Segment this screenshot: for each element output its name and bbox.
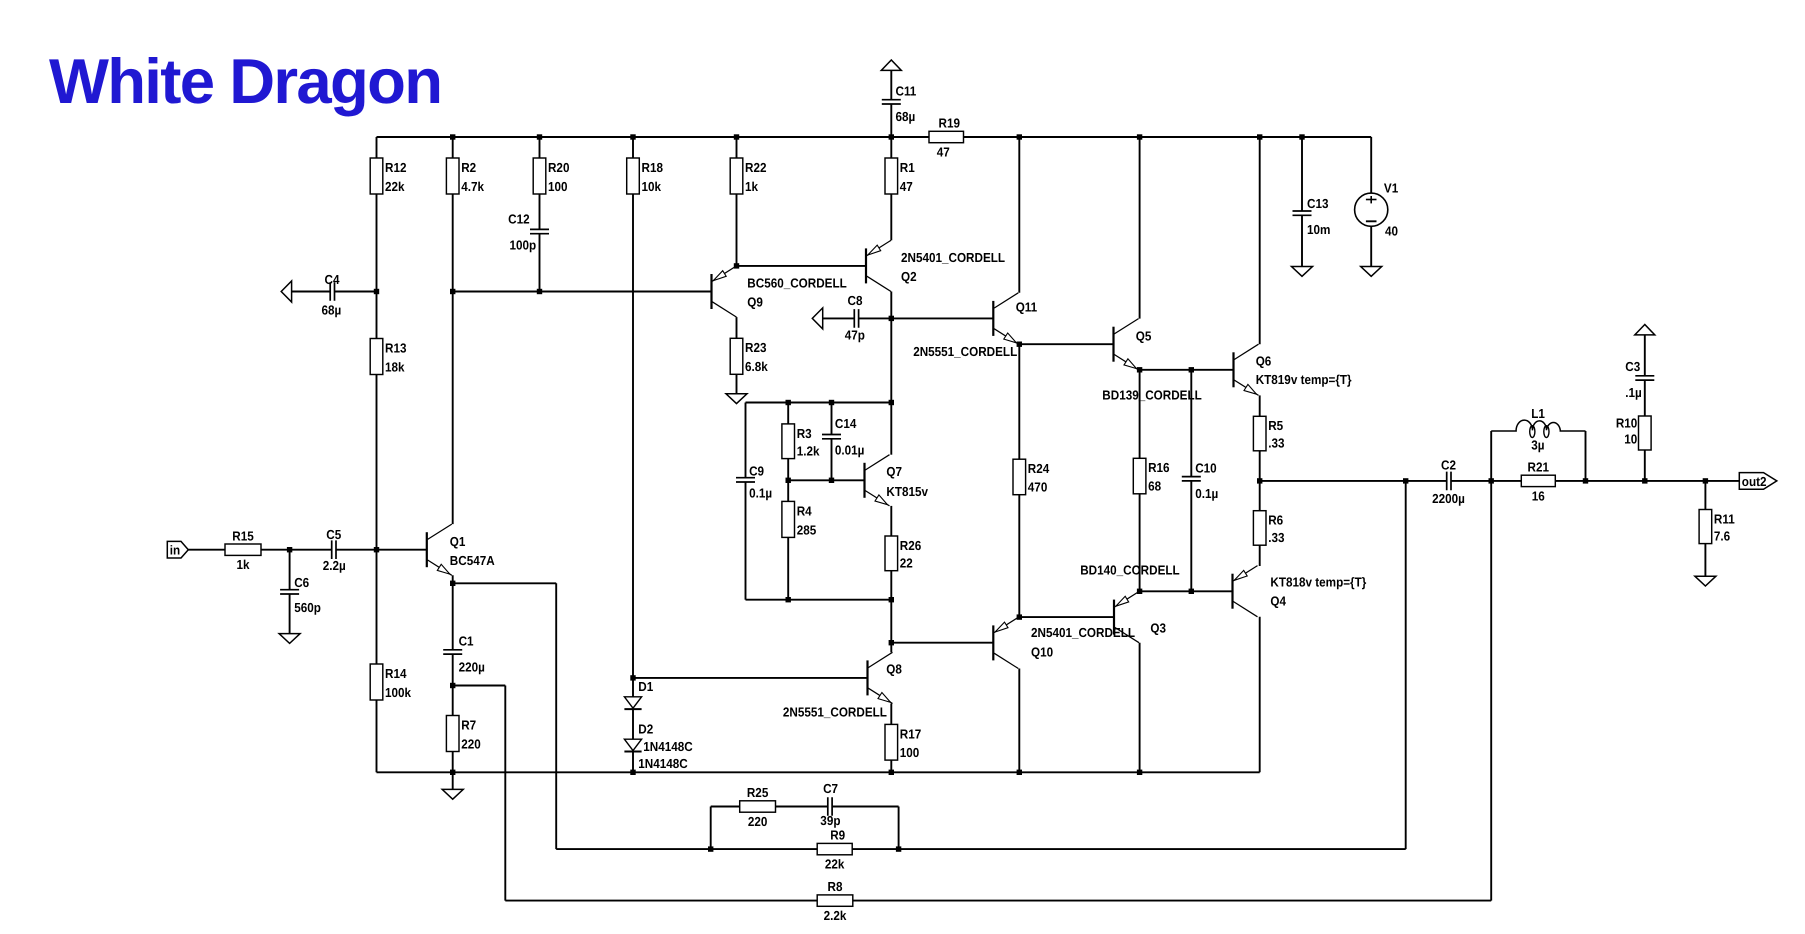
svg-text:C11: C11 (896, 84, 917, 99)
wire C8 to node (859, 317, 892, 319)
svg-text:.33: .33 (1268, 436, 1284, 451)
svg-text:10k: 10k (642, 179, 662, 194)
svg-text:D1: D1 (638, 679, 653, 694)
wire bottom rail (377, 771, 1260, 773)
capacitor C13 (1293, 196, 1331, 237)
svg-text:R4: R4 (797, 503, 813, 518)
resistor R11 (1699, 510, 1735, 544)
svg-text:C1: C1 (459, 633, 474, 648)
ground below C6 (279, 634, 300, 644)
resistor R24 (1013, 459, 1050, 495)
junction mid rail right (889, 400, 894, 405)
svg-text:68µ: 68µ (896, 109, 916, 124)
resistor R17 (885, 724, 921, 760)
ground below V1 (1361, 267, 1382, 277)
svg-text:C13: C13 (1307, 196, 1328, 211)
junction R26 bottom node (889, 597, 894, 602)
svg-text:C4: C4 (325, 272, 341, 287)
wire Q8 base wire (633, 677, 868, 679)
diode D2 (624, 739, 641, 751)
wire Q4 collector down (1259, 617, 1261, 773)
wire R12 bottom (376, 194, 378, 292)
capacitor C11 (882, 84, 917, 124)
svg-text:C12: C12 (508, 211, 529, 226)
wire C8 node to Q11 base (891, 317, 993, 319)
wire R9 lead left (711, 848, 818, 850)
svg-text:0.1µ: 0.1µ (749, 486, 772, 501)
resistor R25 (740, 785, 776, 829)
junction bot R17 (889, 770, 894, 775)
svg-text:2N5401_CORDELL: 2N5401_CORDELL (901, 250, 1005, 265)
junction R24/Q10E/Q3 base (1017, 614, 1022, 619)
svg-text:40: 40 (1385, 224, 1398, 239)
ground below bottom rail (442, 789, 463, 799)
svg-text:Q2: Q2 (901, 269, 917, 284)
wire R24 top (1018, 344, 1020, 459)
resistor R9 (817, 828, 852, 872)
svg-text:6.8k: 6.8k (745, 359, 768, 374)
wire C10 lower (1190, 481, 1192, 591)
svg-text:.33: .33 (1268, 530, 1284, 545)
junction C8 node (889, 316, 894, 321)
svg-text:R25: R25 (747, 785, 768, 800)
svg-text:BD139_CORDELL: BD139_CORDELL (1102, 388, 1202, 403)
svg-text:22k: 22k (385, 179, 405, 194)
wire D1 top wire (632, 678, 634, 697)
junction R2/Q1 node (450, 289, 455, 294)
ground below R23 (726, 394, 747, 404)
junction R16/Q3E node (1137, 589, 1142, 594)
svg-text:1.2k: 1.2k (797, 444, 820, 459)
wire R4 top wire (787, 480, 789, 501)
wire R9 row right (852, 848, 1405, 850)
svg-text:3µ: 3µ (1531, 437, 1544, 452)
svg-text:Q9: Q9 (747, 295, 763, 310)
svg-text:47: 47 (900, 179, 913, 194)
transistor Q7 (KT815v) (865, 455, 929, 506)
wire R4 bottom wire (787, 537, 789, 599)
svg-text:C10: C10 (1195, 461, 1216, 476)
wire R8 row right (853, 900, 1491, 902)
svg-text:0.01µ: 0.01µ (835, 442, 865, 457)
svg-text:C5: C5 (326, 527, 341, 542)
svg-text:BC547A: BC547A (450, 553, 495, 568)
svg-text:18k: 18k (385, 359, 405, 374)
resistor R20 (533, 158, 569, 194)
wire Q6 collector up (1259, 137, 1261, 344)
wire C1 lower (452, 654, 454, 685)
svg-text:2N5551_CORDELL: 2N5551_CORDELL (783, 705, 887, 720)
wire out row 4 (1645, 480, 1706, 482)
wire C13 bottom (1301, 215, 1303, 266)
wire rail corner to R12 (376, 137, 378, 158)
svg-text:R24: R24 (1028, 461, 1050, 476)
wire L1 left riser (1490, 431, 1492, 481)
wire Q2 collector down (890, 292, 892, 319)
wire C8 flag to cap (823, 317, 855, 319)
transistor Q8 (2N5551_CORDELL) (783, 652, 902, 719)
capacitor C3 (1625, 359, 1654, 400)
svg-text:10m: 10m (1307, 222, 1330, 237)
wire C12 bottom (539, 234, 541, 292)
wire Q1 emitter down (452, 575, 454, 650)
junction C2/R21/L1 node (1489, 478, 1494, 483)
wire R25 riser left (710, 807, 712, 850)
svg-text:R26: R26 (900, 538, 921, 553)
svg-text:V1: V1 (1384, 181, 1398, 196)
junction R9 right node (896, 846, 901, 851)
transistor Q2 (2N5401_CORDELL) (866, 240, 1005, 291)
wire mid rail top (746, 402, 892, 404)
junction R12/R13/C4 (374, 289, 379, 294)
resistor R12 (370, 158, 406, 194)
junction Q8C/Q10B node (889, 640, 894, 645)
wire R11 bottom wire (1704, 544, 1706, 577)
junction bot Q3 (1137, 770, 1142, 775)
wire Q9 E slant end (736, 265, 738, 267)
resistor R13 (370, 339, 406, 375)
junction R22/Q2 base (734, 263, 739, 268)
svg-text:7.6: 7.6 (1714, 529, 1730, 544)
resistor R16 (1133, 458, 1169, 494)
resistor R7 (446, 716, 480, 752)
svg-text:47p: 47p (845, 328, 865, 343)
svg-text:C6: C6 (294, 575, 309, 590)
inductor L1 (1491, 406, 1585, 452)
junction R11 node (1703, 478, 1708, 483)
wire C4 flag to cap (292, 291, 331, 293)
svg-text:.1µ: .1µ (1625, 385, 1642, 400)
svg-text:220: 220 (461, 736, 481, 751)
svg-text:100: 100 (548, 179, 568, 194)
wire R6 top (1259, 481, 1261, 511)
wire L1 right riser (1585, 431, 1587, 481)
svg-text:Q4: Q4 (1270, 593, 1286, 608)
resistor R26 (885, 536, 921, 571)
svg-text:R12: R12 (385, 160, 406, 175)
svg-text:in: in (170, 543, 180, 558)
resistor R15 (225, 528, 261, 572)
resistor R2 (446, 158, 484, 194)
diode D1 (624, 697, 641, 709)
junction top R20 (537, 134, 542, 139)
svg-text:BD140_CORDELL: BD140_CORDELL (1080, 563, 1180, 578)
svg-text:68: 68 (1148, 479, 1161, 494)
wire base rail (453, 291, 712, 293)
svg-text:R19: R19 (939, 116, 960, 131)
junction top R22 (734, 134, 739, 139)
svg-text:47: 47 (937, 145, 950, 160)
wire Q1 collector up (452, 292, 454, 525)
transistor Q11 (2N5551_CORDELL) (913, 293, 1037, 359)
svg-text:Q3: Q3 (1150, 620, 1166, 635)
svg-text:R17: R17 (900, 726, 921, 741)
wire Q6 emitter down (1259, 395, 1261, 416)
svg-text:Q8: Q8 (886, 662, 902, 677)
wire Q10 base wire (891, 642, 993, 644)
svg-text:R13: R13 (385, 340, 406, 355)
wire top rail mid (891, 136, 929, 138)
wire R18 bottom long (632, 194, 634, 678)
svg-text:R14: R14 (385, 666, 407, 681)
wire R13 top (376, 292, 378, 339)
junction C5/R13/R14 node (374, 547, 379, 552)
wire R11 top wire (1704, 481, 1706, 510)
junction bot Q10 (1017, 770, 1022, 775)
wire Q2C to mid rail (890, 318, 892, 402)
svg-text:100k: 100k (385, 685, 412, 700)
voltage source V1 (1355, 181, 1399, 239)
wire fb2 v (504, 686, 506, 901)
svg-text:C14: C14 (835, 416, 857, 431)
resistor R3 (782, 424, 820, 459)
wire C4 to column (335, 291, 377, 293)
junction top Q11 (1017, 134, 1022, 139)
resistor R22 (730, 158, 766, 194)
ground below R11 (1695, 576, 1716, 586)
port flag out2 (1739, 473, 1777, 490)
svg-text:16: 16 (1532, 488, 1545, 503)
wire R3 bottom wire (787, 459, 789, 481)
svg-text:100p: 100p (510, 238, 537, 253)
junction C14 top (829, 400, 834, 405)
svg-text:2N5401_CORDELL: 2N5401_CORDELL (1031, 625, 1135, 640)
svg-text:R23: R23 (745, 340, 766, 355)
resistor R4 (782, 501, 816, 537)
wire Q10 collector down (1018, 669, 1020, 773)
wire C14 lower (831, 439, 833, 480)
wire R26 bottom wire (890, 571, 892, 600)
wire Q7 emitter down (890, 506, 892, 536)
wire out row 1 (1260, 480, 1447, 482)
capacitor C10 (1182, 461, 1218, 502)
junction Q11 E node (1017, 342, 1022, 347)
svg-text:KT819v temp={T}: KT819v temp={T} (1256, 372, 1352, 387)
power flag above C3 (1635, 325, 1655, 335)
transistor Q4 (KT818v temp={T}) (1233, 566, 1367, 617)
resistor R21 (1521, 460, 1555, 504)
wire R10 to C3 (1644, 381, 1646, 416)
resistor R14 (370, 664, 412, 700)
svg-text:R8: R8 (828, 879, 843, 894)
wire Q3 collector down (1139, 643, 1141, 773)
wire C3 stem (1644, 335, 1646, 376)
transistor Q5 (BD139_CORDELL) (1102, 319, 1202, 403)
transistor Q1 (BC547A) (427, 524, 495, 575)
capacitor C6 (280, 575, 321, 615)
junction R15/C6 node (287, 547, 292, 552)
wire fb2 h (453, 685, 506, 687)
junction C1/R7 node (450, 683, 455, 688)
capacitor C4 (321, 272, 341, 318)
svg-text:D2: D2 (638, 721, 653, 736)
wire C10 to Q6 base (1191, 369, 1233, 371)
transistor Q10 (2N5401_CORDELL) (993, 617, 1135, 668)
wire X1 to Q1 base (377, 549, 427, 551)
svg-text:2N5551_CORDELL: 2N5551_CORDELL (913, 344, 1017, 359)
wire R25 lead (711, 806, 740, 808)
resistor R10 (1616, 415, 1651, 450)
wire R2 top (452, 137, 454, 158)
wire out row 2 (1451, 480, 1491, 482)
wire Q7 collector up (890, 403, 892, 455)
wire R25 riser right (898, 807, 900, 850)
svg-text:220: 220 (748, 814, 768, 829)
junction top C11 (889, 134, 894, 139)
wire R2 bottom (452, 194, 454, 292)
wire R25 to C7 (776, 806, 828, 808)
svg-text:BC560_CORDELL: BC560_CORDELL (747, 276, 847, 291)
wire C6 lower (289, 594, 291, 634)
wire gnd stem (452, 772, 454, 789)
wire V1 bottom (1370, 226, 1372, 266)
junction R3 top (786, 400, 791, 405)
wire R8 row left (505, 900, 817, 902)
wire C7 lead (832, 806, 898, 808)
wire to Q2 base (737, 265, 867, 267)
wire R9 riser (1405, 481, 1407, 849)
wire R5 bottom (1259, 451, 1261, 481)
svg-text:2.2µ: 2.2µ (323, 558, 346, 573)
svg-text:R21: R21 (1528, 460, 1549, 475)
wire R16 top (1139, 370, 1141, 459)
wire Q4 base wire (1140, 590, 1233, 592)
transistor Q6 (KT819v temp={T}) (1234, 344, 1352, 395)
wire R15 to C6 node (261, 549, 290, 551)
resistor R6 (1253, 511, 1284, 546)
svg-text:R5: R5 (1268, 418, 1283, 433)
wire Q11E to Q5 base (1019, 343, 1113, 345)
wire R16 bottom (1139, 494, 1141, 592)
svg-text:L1: L1 (1531, 406, 1545, 421)
svg-text:1N4148C: 1N4148C (643, 739, 693, 754)
resistor R5 (1253, 416, 1284, 451)
capacitor C7 (820, 781, 840, 828)
svg-text:4.7k: 4.7k (461, 179, 484, 194)
svg-text:2.2k: 2.2k (824, 908, 847, 923)
capacitor C12 (508, 211, 549, 252)
wire Q5 collector up (1139, 137, 1141, 319)
wire D2 bottom wire (632, 752, 634, 773)
wire R14 top wire (376, 550, 378, 664)
junction top R2 (450, 134, 455, 139)
junction C14 bottom (829, 478, 834, 483)
svg-text:R6: R6 (1268, 513, 1283, 528)
wire mid rail bottom (746, 599, 892, 601)
svg-text:C9: C9 (749, 464, 764, 479)
svg-text:0.1µ: 0.1µ (1195, 486, 1218, 501)
wire R13 bottom (376, 375, 378, 550)
wire R21 lead right (1555, 480, 1585, 482)
wire C5 to X1 (336, 549, 376, 551)
wire R24 bottom (1018, 495, 1020, 617)
wire V1 top (1370, 137, 1372, 193)
wire Q3E to R16 node (1139, 590, 1141, 592)
wire C6node to C5 (290, 549, 332, 551)
svg-text:C3: C3 (1625, 359, 1640, 374)
svg-text:R10: R10 (1616, 415, 1637, 430)
wire C6 upper (289, 550, 291, 590)
svg-text:10: 10 (1624, 432, 1637, 447)
junction bot D2 (630, 770, 635, 775)
svg-text:Q6: Q6 (1256, 353, 1272, 368)
wire Q11 emitter down (1018, 343, 1020, 345)
wire C13 top (1301, 137, 1303, 211)
wire Q11 collector up (1018, 137, 1020, 293)
svg-text:1k: 1k (745, 179, 759, 194)
wire Q9 collector down (736, 317, 738, 338)
wire R1 top (890, 137, 892, 158)
wire x6 col 599-652 (890, 600, 892, 653)
transistor Q3 (BD140_CORDELL) (1080, 563, 1180, 643)
transistor Q9 (BC560_CORDELL) (712, 266, 847, 317)
power flag left of C8 (812, 308, 822, 329)
junction top Q5 (1137, 134, 1142, 139)
wire R20 to C12 (539, 194, 541, 229)
svg-text:R7: R7 (461, 717, 476, 732)
resistor R19 (929, 116, 964, 160)
ground below C13 (1292, 267, 1313, 277)
capacitor C8 (845, 293, 865, 342)
wire Q5E to C10 (1140, 369, 1192, 371)
wire Q7 base rail (788, 479, 864, 481)
wire R18 top (632, 137, 634, 158)
capacitor C9 (736, 464, 772, 501)
wire R8 riser (1490, 481, 1492, 901)
wire C14 upper (831, 403, 833, 435)
svg-text:R20: R20 (548, 160, 569, 175)
wire R10 bottom wire (1644, 450, 1646, 481)
svg-text:C2: C2 (1441, 457, 1456, 472)
junction Q5 E node (1137, 367, 1142, 372)
wire out row 5 (1705, 480, 1763, 482)
wire R14 bottom wire (376, 700, 378, 772)
svg-text:R16: R16 (1148, 460, 1169, 475)
wire top rail left (377, 136, 892, 138)
resistor R23 (730, 338, 768, 374)
wire R17 bottom (890, 760, 892, 772)
capacitor C14 (822, 416, 864, 457)
wire Q9 emitter up (736, 194, 738, 266)
junction C10 top node (1189, 367, 1194, 372)
svg-text:Q5: Q5 (1136, 329, 1152, 344)
wire in to R15 (188, 549, 225, 551)
svg-text:KT815v: KT815v (886, 484, 928, 499)
junction C10 bottom node (1189, 589, 1194, 594)
wire C9 upper (745, 403, 747, 478)
svg-text:Q1: Q1 (450, 534, 466, 549)
wire R21 lead left (1491, 480, 1521, 482)
wire C11 stem (890, 70, 892, 99)
svg-text:39p: 39p (820, 813, 840, 828)
junction C12 node (537, 289, 542, 294)
resistor R1 (885, 158, 915, 194)
svg-text:68µ: 68µ (321, 303, 341, 318)
wire Q3 base wire (1019, 616, 1114, 618)
wire fb1 h (453, 582, 557, 584)
wire R7 top wire (452, 686, 454, 716)
junction L1 right node (1583, 478, 1588, 483)
svg-text:C8: C8 (848, 293, 863, 308)
wire R23 bottom (736, 374, 738, 394)
power flag left of C4 (281, 281, 291, 302)
capacitor C1 (443, 633, 485, 674)
wire R3 top wire (787, 403, 789, 424)
resistor R8 (817, 879, 853, 923)
wire R20 top (539, 137, 541, 158)
svg-text:Q10: Q10 (1031, 645, 1053, 660)
wire C9 lower (745, 482, 747, 600)
